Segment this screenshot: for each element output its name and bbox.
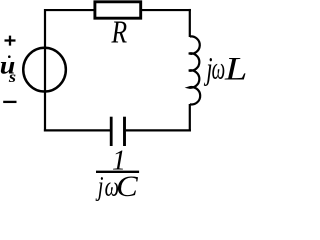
svg-text:R: R	[111, 15, 128, 50]
resistor R	[95, 2, 141, 18]
wire left vertical	[44, 9, 46, 132]
dot above u	[8, 55, 11, 58]
inductor L coils	[189, 36, 200, 104]
wire right vertical top	[189, 9, 191, 37]
svg-text:ω: ω	[212, 49, 226, 85]
wire bottom-left horizontal	[44, 129, 110, 131]
wire top-left horizontal	[44, 9, 95, 11]
svg-text:C: C	[116, 169, 139, 203]
svg-text:j: j	[95, 171, 103, 202]
minus sign	[3, 101, 16, 103]
fraction bar	[96, 171, 139, 173]
wire top-right horizontal	[141, 9, 191, 11]
wire right vertical bottom	[189, 104, 191, 132]
plus sign	[5, 36, 16, 46]
source U1 circle	[23, 48, 66, 92]
wire bottom-right horizontal	[126, 129, 191, 131]
capacitor C left plate	[110, 117, 113, 146]
svg-text:L: L	[224, 50, 246, 87]
capacitor C right plate	[123, 117, 126, 146]
svg-text:s: s	[8, 68, 17, 86]
